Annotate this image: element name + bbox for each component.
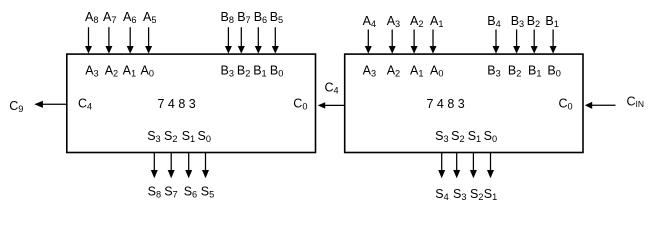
wire S1 output U2 (470, 153, 477, 178)
wire carry C4 from U2 to U1 (318, 102, 345, 108)
wire B8 input (225, 27, 232, 53)
wire B7 input (238, 27, 245, 53)
wire S3 output U1 (151, 153, 158, 178)
wire S2 output U2 (453, 153, 460, 178)
wire B6 input (255, 27, 262, 53)
wire B5 input (272, 27, 279, 53)
wire A5 input (145, 27, 152, 53)
wire CIN input (585, 102, 616, 109)
wire A6 input (127, 27, 134, 53)
wire A2 input (411, 30, 418, 54)
wire A1 input (430, 30, 437, 54)
adder U2 (7483 low nibble) body (345, 54, 583, 152)
adder U1 (7483 high nibble) body (67, 54, 316, 152)
svg-text:7 4 8 3: 7 4 8 3 (158, 97, 196, 111)
wire C9 carry out (34, 101, 66, 108)
wire A4 input (365, 30, 372, 54)
wire B1 input (550, 30, 557, 54)
wire S2 output U1 (168, 153, 175, 178)
wire B4 input (493, 30, 500, 54)
wire S0 output U1 (202, 153, 209, 178)
wire B3 input (513, 30, 520, 54)
wire B2 input (531, 30, 538, 54)
wire A7 input (105, 27, 112, 53)
wire S1 output U1 (185, 153, 192, 178)
wire S0 output U2 (487, 153, 494, 178)
wire A8 input (85, 27, 92, 53)
svg-text:7 4 8 3: 7 4 8 3 (427, 97, 465, 111)
wire A3 input (389, 30, 396, 54)
wire S3 output U2 (438, 153, 445, 178)
